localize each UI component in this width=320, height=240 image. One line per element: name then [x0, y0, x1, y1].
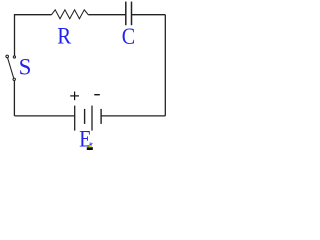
battery E negative plate (inner short): [84, 109, 86, 124]
cursor artifact blue tick: [91, 143, 93, 145]
battery E positive plate (inner tall): [91, 106, 93, 131]
wire bottom-right segment: [101, 115, 165, 117]
switch S lower terminal: [13, 78, 15, 80]
svg-text:S: S: [19, 54, 32, 79]
wire resistor to capacitor: [88, 14, 125, 16]
capacitor C1 right plate: [131, 2, 133, 26]
cursor artifact black block: [87, 147, 93, 150]
cursor artifact yellow blob: [87, 145, 92, 148]
resistor R1: [52, 10, 89, 19]
wire left lower segment: [13, 81, 15, 116]
wire capacitor to top-right corner: [132, 14, 165, 16]
battery minus sign: [94, 94, 100, 96]
svg-text:C: C: [122, 24, 135, 49]
wire right side: [164, 15, 166, 116]
battery E positive plate (left tall): [74, 106, 76, 131]
battery E negative plate (right short): [100, 109, 102, 124]
battery plus sign: [70, 92, 79, 101]
capacitor C1 left plate: [125, 2, 127, 26]
wire top-left segment: [15, 15, 52, 56]
switch S upper terminal: [13, 56, 15, 58]
svg-text:R: R: [57, 24, 71, 49]
switch S blade: [8, 58, 14, 78]
switch S blade end circle: [6, 55, 9, 58]
wire bottom-left segment: [15, 115, 75, 117]
